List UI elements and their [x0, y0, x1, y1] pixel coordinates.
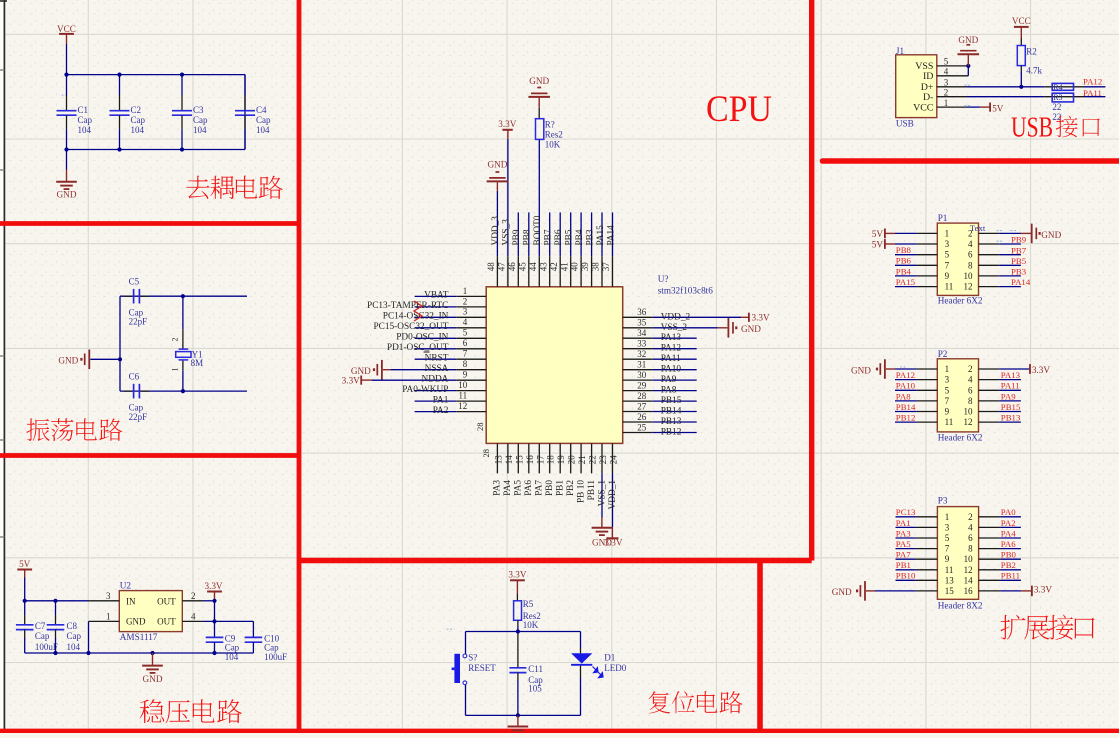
- svg-text:9: 9: [945, 271, 950, 281]
- svg-text:22: 22: [588, 455, 598, 464]
- svg-text:3.3V: 3.3V: [498, 119, 516, 129]
- ground: [56, 150, 77, 200]
- power 5V row2: [872, 239, 938, 250]
- capacitor C3: [172, 75, 208, 150]
- svg-text:PA4: PA4: [1001, 528, 1016, 538]
- power 3.3V row1: [979, 364, 1051, 375]
- svg-text:5V: 5V: [872, 229, 884, 239]
- svg-text:LED0: LED0: [604, 663, 626, 673]
- svg-text:26: 26: [637, 412, 647, 422]
- svg-text:28: 28: [481, 449, 491, 458]
- wire: [465, 632, 467, 655]
- svg-text:Header 8X2: Header 8X2: [938, 600, 983, 610]
- power 5V: [17, 559, 32, 578]
- svg-text:104: 104: [78, 125, 92, 135]
- svg-text:8: 8: [968, 396, 973, 406]
- svg-text:10K: 10K: [545, 140, 561, 150]
- sheet border: [0, 0, 7, 733]
- port PA13: [979, 370, 1021, 380]
- connector P2: [937, 349, 978, 432]
- title oscillator: [26, 418, 122, 441]
- wire: [24, 578, 26, 601]
- port PB13: [979, 413, 1021, 423]
- section divider horizontal C: [299, 558, 812, 563]
- wire pin 19 PB1: [556, 443, 567, 496]
- svg-text:PB12: PB12: [661, 428, 682, 438]
- port PA5: [896, 539, 938, 549]
- svg-text:PB13: PB13: [661, 417, 682, 427]
- svg-text:5: 5: [944, 57, 949, 67]
- svg-text:C2: C2: [131, 105, 142, 115]
- port PB12: [895, 413, 937, 423]
- port PA1: [896, 518, 938, 528]
- svg-text:PB2: PB2: [566, 480, 576, 496]
- svg-text:5V: 5V: [992, 104, 1004, 114]
- svg-text:2: 2: [944, 87, 949, 97]
- svg-text:C5: C5: [129, 277, 140, 287]
- svg-text:USB: USB: [1011, 112, 1053, 143]
- transistor S?: [452, 652, 497, 684]
- svg-text:PB1: PB1: [556, 480, 566, 496]
- power 3.3V: [498, 119, 516, 139]
- wire pin 11 PA1: [415, 391, 487, 406]
- svg-text:18: 18: [546, 455, 556, 465]
- ground: [958, 35, 980, 66]
- section divider horizontal bottom: [0, 729, 1119, 734]
- svg-text:15: 15: [945, 586, 955, 596]
- transistor U7: [486, 274, 713, 443]
- wire pin 48 VDD_3: [486, 191, 501, 287]
- wire pin 33 PA12: [623, 339, 697, 354]
- value 22 22: [1052, 102, 1061, 122]
- svg-text:12: 12: [964, 565, 973, 575]
- svg-text:8: 8: [968, 260, 973, 270]
- svg-text:R4: R4: [1053, 83, 1062, 92]
- svg-text:C11: C11: [528, 664, 543, 674]
- svg-text:Cap: Cap: [131, 115, 146, 125]
- svg-text:7: 7: [945, 544, 950, 554]
- svg-text:7: 7: [945, 260, 950, 270]
- svg-text:1: 1: [945, 512, 950, 522]
- svg-text:R5: R5: [523, 599, 534, 609]
- svg-text:Header 6X2: Header 6X2: [938, 433, 983, 443]
- svg-text:12: 12: [964, 282, 973, 292]
- svg-text:42: 42: [549, 262, 559, 271]
- svg-text:47: 47: [497, 262, 507, 272]
- svg-text:5: 5: [463, 328, 468, 338]
- wire pin1: [89, 611, 120, 653]
- svg-text:PA14: PA14: [1011, 277, 1031, 287]
- resistor R2: [1017, 38, 1042, 87]
- ground: [351, 360, 390, 380]
- svg-text:PB10: PB10: [896, 571, 916, 581]
- svg-text:24: 24: [609, 455, 619, 465]
- node junction: [118, 357, 122, 361]
- svg-text:U?: U?: [658, 274, 669, 284]
- wire pin 44 BOOT0: [528, 139, 543, 286]
- svg-text:31: 31: [637, 360, 646, 370]
- wire pin4: [182, 611, 253, 621]
- power VCC: [57, 24, 76, 44]
- svg-text:PA12: PA12: [1083, 77, 1102, 87]
- svg-text:4: 4: [944, 67, 949, 77]
- ground: [487, 160, 509, 191]
- wire ground rail: [25, 652, 254, 654]
- svg-text:6: 6: [968, 533, 973, 543]
- capacitor C7: [16, 601, 58, 653]
- svg-text:9: 9: [463, 370, 468, 380]
- svg-text:PB15: PB15: [661, 396, 682, 406]
- svg-text:11: 11: [945, 282, 954, 292]
- title CPU: [706, 89, 772, 130]
- port PA10: [895, 381, 937, 391]
- svg-text:Cap: Cap: [193, 115, 208, 125]
- svg-text:22pF: 22pF: [129, 412, 148, 422]
- svg-text:PB1: PB1: [896, 560, 911, 570]
- connector P3: [937, 496, 978, 600]
- svg-text:1: 1: [463, 286, 468, 296]
- port PA0: [979, 507, 1021, 517]
- svg-text:PA10: PA10: [896, 381, 916, 391]
- title decoupling: [186, 176, 283, 200]
- svg-text:PB6: PB6: [554, 229, 564, 245]
- capacitor C2: [110, 75, 146, 150]
- power 3.3V: [508, 570, 526, 594]
- svg-text:PA14: PA14: [606, 225, 616, 246]
- port PA3: [896, 528, 938, 538]
- svg-text:22: 22: [1052, 102, 1061, 112]
- wire pin 4 PC15-OSC32_OUT: [373, 317, 486, 332]
- svg-text:RESET: RESET: [468, 663, 496, 673]
- capacitor C6: [124, 372, 149, 422]
- svg-text:3.3V: 3.3V: [1034, 584, 1052, 594]
- svg-text:BOOT0: BOOT0: [533, 215, 543, 245]
- svg-text:2: 2: [968, 364, 973, 374]
- wire pin 36 VDD_2: [623, 307, 741, 322]
- svg-text:PA7: PA7: [896, 550, 911, 560]
- wire: [120, 295, 247, 297]
- svg-text:AMS1117: AMS1117: [120, 632, 158, 642]
- svg-text:104: 104: [131, 125, 145, 135]
- port PA9: [979, 391, 1021, 401]
- capacitor C4: [235, 75, 271, 150]
- svg-text:12: 12: [458, 401, 467, 411]
- svg-text:PB11: PB11: [587, 480, 597, 501]
- ground: [592, 518, 613, 548]
- svg-text:15: 15: [514, 455, 524, 465]
- svg-text:stm32f103c8t6: stm32f103c8t6: [658, 286, 714, 296]
- wire pin 43 PB7: [538, 212, 553, 286]
- svg-text:PA0-WKUP: PA0-WKUP: [402, 385, 448, 395]
- title expansion: [1000, 615, 1094, 640]
- wire pin 37 PA14: [601, 212, 616, 286]
- svg-text:D1: D1: [604, 652, 615, 662]
- svg-text:PB3: PB3: [585, 229, 595, 245]
- svg-text:2: 2: [968, 512, 973, 522]
- svg-text:OUT: OUT: [157, 617, 176, 627]
- resistor R4: [1044, 83, 1105, 92]
- svg-text:PB7: PB7: [544, 229, 554, 245]
- wire pin 3 D+: [937, 78, 1045, 88]
- svg-text:PA11: PA11: [1083, 88, 1102, 98]
- svg-text:27: 27: [637, 401, 647, 411]
- port PA15: [895, 277, 937, 287]
- svg-text:21: 21: [577, 455, 587, 464]
- svg-text:C3: C3: [193, 105, 204, 115]
- port PB6: [895, 256, 937, 266]
- svg-text:PA11: PA11: [661, 354, 681, 364]
- svg-text:4: 4: [463, 317, 468, 327]
- svg-text:4: 4: [191, 611, 196, 621]
- svg-text:U2: U2: [120, 580, 132, 590]
- wire pin 26 PB13: [623, 412, 697, 427]
- port PA14: [979, 277, 1031, 287]
- svg-text:11: 11: [945, 565, 954, 575]
- svg-text:105: 105: [528, 684, 542, 694]
- svg-text:28: 28: [637, 391, 647, 401]
- wire pin 6 PD1-OSC_OUT: [387, 338, 486, 353]
- wire pin 45 PB8: [517, 212, 532, 286]
- svg-text:13: 13: [945, 575, 955, 585]
- ground: [718, 318, 761, 338]
- wire rail top: [466, 631, 581, 633]
- wire: [120, 390, 247, 392]
- svg-text:4: 4: [968, 239, 973, 249]
- svg-text:10: 10: [964, 407, 974, 417]
- svg-text:PA0: PA0: [1001, 507, 1016, 517]
- svg-text:ID: ID: [923, 71, 933, 82]
- svg-text:45: 45: [517, 262, 527, 272]
- port PA12: [895, 370, 937, 380]
- wire pin 2 PC13-TAMPER-RTC: [367, 296, 486, 311]
- svg-text:GND: GND: [958, 35, 978, 45]
- wire: [67, 149, 246, 151]
- svg-text:PA11: PA11: [1001, 381, 1020, 391]
- svg-text:R3: R3: [1053, 93, 1062, 102]
- wire pin 27 PB14: [623, 401, 697, 416]
- svg-text:GND: GND: [143, 674, 163, 684]
- svg-text:1: 1: [945, 364, 950, 374]
- svg-text:38: 38: [591, 262, 601, 272]
- node junction: [966, 64, 970, 68]
- svg-text:30: 30: [637, 370, 647, 380]
- svg-text:PA7: PA7: [535, 480, 545, 496]
- wire pin 5 PD0-OSC_IN: [396, 328, 486, 343]
- svg-text:6: 6: [968, 250, 973, 260]
- svg-text:6: 6: [463, 338, 468, 348]
- ground: [58, 350, 120, 370]
- wire pin 32 PA11: [623, 349, 697, 364]
- svg-text:2: 2: [171, 338, 180, 342]
- svg-text:CPU: CPU: [706, 89, 772, 130]
- section divider horizontal B: [0, 453, 299, 458]
- svg-text:VSS_3: VSS_3: [502, 219, 512, 246]
- wire pin 15 PA5: [514, 443, 525, 495]
- node junction bottom rail: [64, 147, 184, 151]
- svg-text:PB9: PB9: [1011, 235, 1027, 245]
- wire pin 12 PA2: [415, 401, 487, 416]
- svg-text:PA15: PA15: [596, 225, 606, 246]
- port PB11: [979, 571, 1021, 581]
- svg-text:PB13: PB13: [1001, 413, 1021, 423]
- svg-text:PA2: PA2: [433, 406, 449, 416]
- svg-text:PB14: PB14: [896, 402, 916, 412]
- diode D1: [571, 632, 627, 716]
- svg-text:Cap: Cap: [67, 631, 82, 641]
- svg-text:Text: Text: [970, 223, 986, 233]
- capacitor C10: [245, 621, 288, 662]
- power 5V row1: [872, 229, 938, 240]
- svg-text:P2: P2: [938, 349, 948, 359]
- svg-text:3: 3: [945, 522, 950, 532]
- capacitor C9: [206, 601, 240, 662]
- svg-text:GND: GND: [832, 587, 852, 597]
- wire: [66, 44, 68, 75]
- svg-text:1: 1: [106, 611, 111, 621]
- svg-text:PB 10: PB 10: [576, 480, 586, 503]
- port PB14: [895, 402, 937, 412]
- power 3.3V: [741, 312, 770, 322]
- ground row1: [851, 359, 937, 379]
- svg-text:PB4: PB4: [896, 266, 912, 276]
- svg-text:12: 12: [964, 417, 973, 427]
- svg-text:PB14: PB14: [661, 407, 682, 417]
- svg-text:5: 5: [945, 250, 950, 260]
- capacitor C1: [57, 75, 93, 150]
- svg-text:GND: GND: [57, 190, 77, 200]
- svg-text:16: 16: [964, 586, 974, 596]
- svg-text:3: 3: [106, 591, 111, 601]
- svg-text:3.3V: 3.3V: [752, 312, 770, 322]
- svg-text:PB0: PB0: [1001, 550, 1017, 560]
- svg-text:5V: 5V: [872, 240, 884, 250]
- svg-text:IN: IN: [126, 596, 136, 606]
- svg-text:PD0-OSC_IN: PD0-OSC_IN: [396, 333, 448, 343]
- wire pin 8 NSSA: [390, 359, 486, 374]
- wire pin 42 PB6: [549, 212, 564, 286]
- svg-text:PA4: PA4: [503, 480, 513, 496]
- svg-text:PA3: PA3: [896, 528, 911, 538]
- port PA6: [979, 539, 1021, 549]
- svg-text:5: 5: [945, 385, 950, 395]
- power 3.3V: [604, 527, 622, 548]
- svg-text:PA6: PA6: [524, 480, 534, 496]
- wire pin 46 PB9: [507, 212, 522, 286]
- svg-text:PB9: PB9: [512, 229, 522, 245]
- ground: [142, 653, 163, 684]
- svg-text:PA5: PA5: [896, 539, 911, 549]
- section divider vertical left: [297, 0, 302, 733]
- svg-text:22pF: 22pF: [129, 317, 148, 327]
- port PA11: [979, 381, 1021, 391]
- svg-text:4.7k: 4.7k: [1026, 66, 1042, 76]
- svg-text:3: 3: [463, 307, 468, 317]
- svg-text:NSSA: NSSA: [425, 364, 449, 374]
- svg-text:PA15: PA15: [896, 277, 916, 287]
- title regulator: [140, 699, 242, 723]
- svg-text:14: 14: [504, 455, 514, 465]
- wire pin 25 PB12: [623, 422, 697, 437]
- svg-text:40: 40: [570, 262, 580, 272]
- svg-text:100uF: 100uF: [35, 642, 58, 652]
- wire pin 18 PB0: [545, 443, 556, 496]
- svg-text:PA1: PA1: [896, 518, 911, 528]
- net label Text / ground row1: [970, 223, 1062, 243]
- svg-text:GND: GND: [1041, 230, 1061, 240]
- svg-text:D-: D-: [923, 92, 933, 103]
- resistor R7: [536, 108, 563, 150]
- no-ERC marker: [414, 301, 422, 321]
- capacitor C5: [124, 277, 149, 327]
- svg-text:Cap: Cap: [35, 631, 50, 641]
- wire pin 1 VCC: [937, 98, 980, 108]
- svg-text:VSS_1: VSS_1: [597, 480, 607, 507]
- section divider vertical right upper: [809, 0, 814, 561]
- svg-text:8: 8: [968, 544, 973, 554]
- wire pin 41 PB5: [559, 212, 574, 286]
- capacitor C8: [47, 601, 82, 653]
- wire pin 47 VSS_3: [497, 139, 512, 287]
- wire pin 31 PA10: [623, 360, 697, 375]
- svg-text:46: 46: [507, 262, 517, 272]
- svg-text:2: 2: [191, 591, 196, 601]
- svg-text:PA13: PA13: [1001, 370, 1021, 380]
- wire: [244, 75, 246, 150]
- node junction: [181, 389, 185, 393]
- wire pin 34 PA13: [623, 328, 697, 343]
- svg-text:PB2: PB2: [1001, 560, 1016, 570]
- svg-text:17: 17: [535, 455, 545, 465]
- label Header 8X2: [938, 600, 983, 610]
- wire pin 16 PA6: [524, 443, 535, 495]
- svg-text:13: 13: [493, 455, 503, 465]
- svg-text:VSS_2: VSS_2: [661, 323, 688, 333]
- svg-text:GND: GND: [58, 355, 78, 365]
- svg-text:GND: GND: [741, 324, 761, 334]
- wire rail bottom: [466, 714, 581, 716]
- capacitor C11: [509, 632, 543, 716]
- svg-text:PB15: PB15: [1001, 402, 1021, 412]
- svg-text:3: 3: [944, 78, 949, 88]
- svg-text:Header 6X2: Header 6X2: [938, 296, 983, 306]
- port PB2: [979, 560, 1021, 570]
- svg-text:33: 33: [637, 339, 647, 349]
- svg-text:1: 1: [171, 368, 180, 372]
- svg-text:PA5: PA5: [514, 480, 524, 496]
- port PB9: [979, 235, 1027, 245]
- svg-text:19: 19: [556, 455, 566, 465]
- svg-text:PB7: PB7: [1011, 245, 1027, 255]
- svg-text:GND: GND: [851, 365, 871, 375]
- svg-text:5V: 5V: [19, 559, 31, 569]
- wire pin 14 PA4: [503, 443, 514, 495]
- title reset: [648, 691, 742, 713]
- wire pin 7 NRST: [415, 349, 487, 364]
- wire pin 35 VSS_2: [623, 318, 718, 333]
- svg-text:7: 7: [945, 396, 950, 406]
- svg-text:104: 104: [256, 125, 270, 135]
- svg-text:1: 1: [944, 98, 949, 108]
- svg-text:10: 10: [964, 271, 974, 281]
- svg-text:S?: S?: [468, 652, 477, 662]
- wire pin 38 PA15: [591, 212, 606, 286]
- wire pin 40 PB4: [570, 212, 585, 286]
- svg-text:28: 28: [475, 423, 485, 432]
- ground: [508, 715, 529, 730]
- svg-text:PC13: PC13: [896, 507, 916, 517]
- svg-text:5: 5: [945, 533, 950, 543]
- op-amp U2: [119, 580, 182, 642]
